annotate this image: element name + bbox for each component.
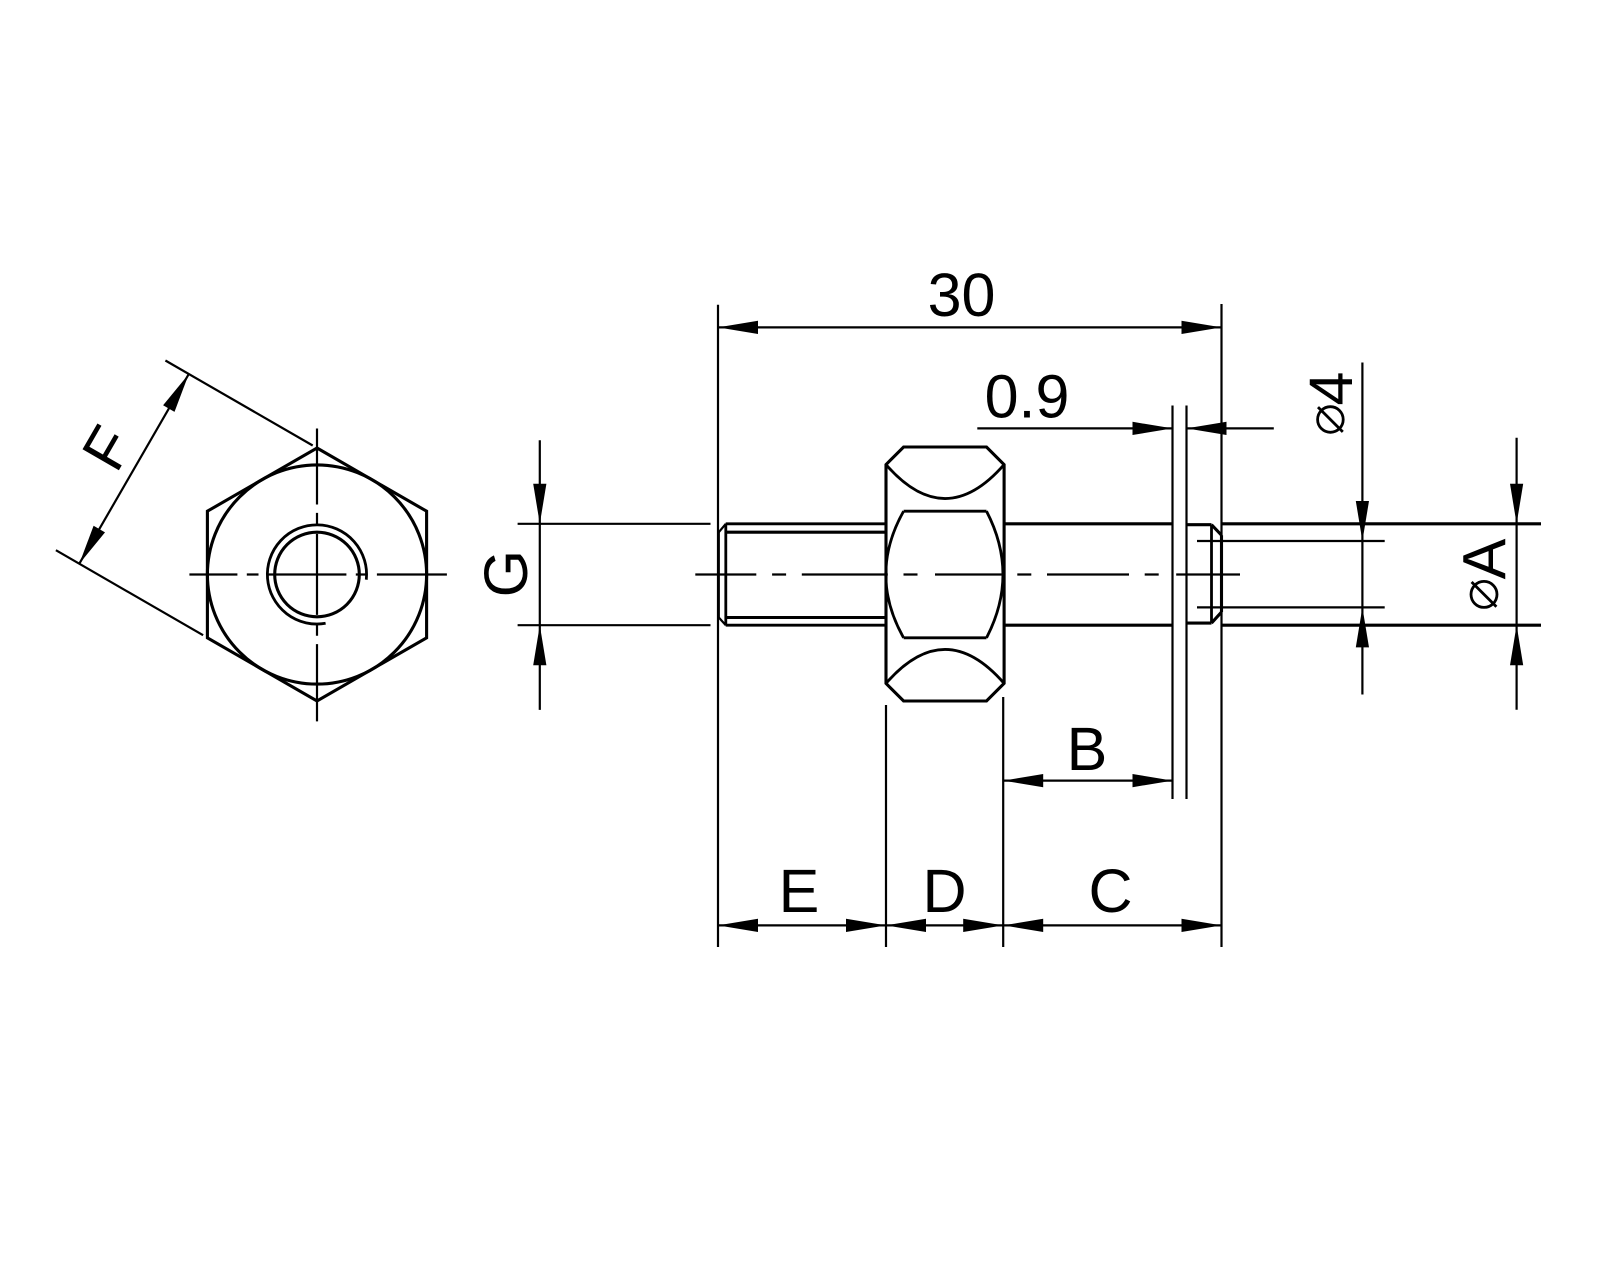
dimension E: left arrowhead xyxy=(718,919,758,932)
dimension 0.9: right line xyxy=(1187,427,1274,429)
hex nut end view: vertical center line xyxy=(316,429,318,722)
dimension F: arrowhead upper xyxy=(163,374,189,412)
side view: center line xyxy=(695,573,1240,575)
dimension phiA: bottom arrowhead xyxy=(1510,625,1523,665)
shaft top line (nut to groove) xyxy=(1004,522,1172,525)
svg-text:0.9: 0.9 xyxy=(985,363,1070,431)
dimension phi4: bottom arrowhead xyxy=(1356,607,1369,647)
thread end face xyxy=(717,532,720,617)
dimension F: extension line upper xyxy=(165,361,312,446)
dimension phiA: diameter symbol xyxy=(1471,581,1497,607)
dimension 0.9: right arrowhead xyxy=(1187,422,1227,435)
svg-text:4: 4 xyxy=(1297,372,1365,406)
hex nut side view: outline xyxy=(886,447,1004,701)
dimension C: right arrowhead xyxy=(1182,919,1222,932)
groove right edge / extension line xyxy=(1185,406,1187,800)
hex nut side view: top face chamfer arc xyxy=(886,465,1004,499)
dimension F: arrowhead lower xyxy=(79,526,105,564)
hex nut side view: face edge bottom xyxy=(904,636,987,639)
collar top-right chamfer xyxy=(1212,525,1222,536)
dimension 30: line xyxy=(718,326,1222,328)
thread root line top xyxy=(727,531,887,534)
dimension 30: left arrowhead xyxy=(718,321,758,334)
thread crest line bottom xyxy=(726,624,886,627)
thread root line bottom xyxy=(727,616,887,619)
hex nut end view: hexagon outline xyxy=(207,448,426,701)
thread end chamfer bottom diagonal xyxy=(719,618,726,626)
dimension phi4: diameter symbol xyxy=(1318,407,1344,433)
dimension 0.9: left arrowhead xyxy=(1133,422,1173,435)
dimension E: right arrowhead xyxy=(846,919,886,932)
collar bottom-right chamfer xyxy=(1212,612,1222,623)
dimension phi4: line xyxy=(1361,363,1363,695)
G extension line top xyxy=(518,523,711,525)
hex nut end view: thread hole xyxy=(275,532,360,617)
phi4 extension line top xyxy=(1197,540,1385,542)
dimension phi4: top arrowhead xyxy=(1356,501,1369,541)
extension line collar right face (x=1221.5) xyxy=(1220,304,1222,947)
hex nut side view: bottom face chamfer arc xyxy=(886,649,1004,683)
collar right face xyxy=(1220,535,1223,612)
right shaft bottom line xyxy=(1222,624,1542,627)
svg-text:D: D xyxy=(922,857,966,925)
dimension D: left arrowhead xyxy=(886,919,926,932)
dimension B: line xyxy=(1003,779,1172,781)
dimension phiA: line xyxy=(1515,438,1517,710)
dimension D: right arrowhead xyxy=(963,919,1003,932)
dimension B: right arrowhead xyxy=(1133,774,1173,787)
dimension G: bottom arrowhead xyxy=(533,625,546,665)
hex nut side view: left chamfer arc xyxy=(886,511,904,638)
extension line nut right face xyxy=(1002,697,1004,947)
dimension E/D/C: shared line xyxy=(718,924,1222,926)
groove left edge / extension line xyxy=(1171,406,1173,800)
thread end chamfer top diagonal xyxy=(719,524,726,532)
collar top edge xyxy=(1187,523,1212,526)
svg-text:C: C xyxy=(1088,857,1132,925)
dimension 0.9: left line xyxy=(977,427,1172,429)
dimension G: line xyxy=(539,440,541,710)
svg-text:G: G xyxy=(472,550,540,597)
dimension 30: right arrowhead xyxy=(1182,321,1222,334)
dimension G: top arrowhead xyxy=(533,484,546,524)
collar chamfer edge line xyxy=(1210,525,1213,623)
hex nut end view: horizontal center line xyxy=(189,573,447,575)
thread crest line top xyxy=(726,522,886,525)
svg-text:30: 30 xyxy=(928,261,996,329)
hex nut side view: right chamfer arc xyxy=(987,511,1003,638)
extension line left end (x=718) xyxy=(717,305,719,947)
extension line nut left face xyxy=(885,705,887,947)
hex nut side view: face edge top xyxy=(904,510,987,513)
hex nut end view: chamfer circle xyxy=(207,465,426,684)
svg-text:E: E xyxy=(779,857,820,925)
shaft bottom line (nut to groove) xyxy=(1004,624,1172,627)
phi4 extension line bottom xyxy=(1197,606,1385,608)
G extension line bottom xyxy=(518,624,711,626)
right shaft top line xyxy=(1222,522,1542,525)
svg-text:B: B xyxy=(1067,715,1108,783)
thread end chamfer edge xyxy=(724,524,727,625)
dimension B: left arrowhead xyxy=(1003,774,1043,787)
dimension phiA: top arrowhead xyxy=(1510,484,1523,524)
hex nut end view: thread major arc xyxy=(267,525,366,624)
svg-text:A: A xyxy=(1451,538,1519,579)
dimension F: extension line lower xyxy=(56,550,203,635)
collar bottom edge xyxy=(1187,622,1212,625)
dimension C: left arrowhead xyxy=(1003,919,1043,932)
dimension F: dimension line xyxy=(79,374,189,564)
